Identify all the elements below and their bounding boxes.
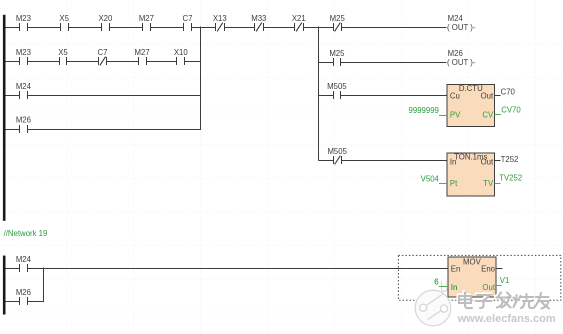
wire <box>27 61 59 62</box>
svg-text:M505: M505 <box>327 82 347 91</box>
contact M23 (NO) <box>16 14 31 31</box>
svg-text:CV70: CV70 <box>501 105 521 114</box>
contact X21 (NC) <box>292 14 306 32</box>
left power rail (top network) <box>3 15 6 221</box>
svg-text:6: 6 <box>434 278 438 287</box>
wire rung3 to node A <box>27 95 201 96</box>
contact M505 (NO) <box>327 82 347 99</box>
contact M23 (NO) <box>16 48 31 65</box>
svg-text:In: In <box>451 283 458 292</box>
wire branch from node B <box>318 62 333 63</box>
contact M26 (NO) <box>16 288 31 305</box>
svg-text:Eno: Eno <box>481 265 496 274</box>
svg-text:M27: M27 <box>135 48 150 57</box>
wire rung1 from rail <box>6 27 20 28</box>
wire rung4 from rail <box>6 129 20 130</box>
wire branch from node B <box>318 95 333 96</box>
wire <box>263 27 295 28</box>
svg-text:V1: V1 <box>500 276 510 285</box>
wire to coil M26 <box>341 62 447 63</box>
svg-text:9999999: 9999999 <box>409 106 439 115</box>
svg-text:X20: X20 <box>98 14 113 23</box>
contact C7 (NC) <box>98 48 108 66</box>
dashed selection rectangle around MOV block <box>398 255 560 300</box>
node C junction vertical wire <box>43 268 44 302</box>
contact X5 (NO) <box>58 48 68 65</box>
wire rung from rail <box>6 268 20 269</box>
wire <box>146 61 177 62</box>
svg-text:PV: PV <box>450 111 461 120</box>
timer block U2 TON.1ms <box>447 153 494 197</box>
wire green Pt stub <box>439 183 447 184</box>
wire to node C <box>27 301 44 302</box>
svg-text:X21: X21 <box>292 14 306 23</box>
contact M27 (NO) <box>139 14 154 31</box>
svg-text:( OUT )-: ( OUT )- <box>447 58 476 67</box>
svg-text:M24: M24 <box>16 82 32 91</box>
contact X13 (NC) <box>213 14 227 32</box>
wire <box>109 27 142 28</box>
contact M27 (NO) <box>135 48 150 65</box>
output coil M24 (OUT) <box>447 14 476 32</box>
svg-text:M26: M26 <box>16 115 31 124</box>
svg-text:M25: M25 <box>329 49 345 58</box>
svg-text:X5: X5 <box>59 14 69 23</box>
svg-text:D.CTU: D.CTU <box>459 84 483 93</box>
svg-text:Pt: Pt <box>450 179 458 188</box>
contact C7 (NO) <box>183 14 193 31</box>
wire rung4 to node A <box>27 129 201 130</box>
svg-text:X10: X10 <box>174 48 189 57</box>
wire to counter U1 Cu input <box>341 95 447 96</box>
svg-text:M25: M25 <box>330 14 346 23</box>
wire <box>68 27 101 28</box>
svg-text:M26: M26 <box>16 288 31 297</box>
contact X20 (NO) <box>98 14 113 31</box>
svg-text://Network 19: //Network 19 <box>4 229 48 238</box>
svg-text:M27: M27 <box>139 14 154 23</box>
wire green PV stub <box>439 115 447 116</box>
wire rung1 through node A <box>192 27 216 28</box>
svg-text:C7: C7 <box>98 48 108 57</box>
svg-text:TV252: TV252 <box>499 174 522 183</box>
svg-text:Out: Out <box>481 92 494 101</box>
wire green In stub (over watermark) <box>439 286 448 287</box>
svg-text:www.elecfans.com: www.elecfans.com <box>457 313 556 325</box>
svg-text:In: In <box>450 157 457 166</box>
svg-text:M23: M23 <box>16 14 31 23</box>
svg-text:Out: Out <box>481 157 494 166</box>
watermark elecfans logo and text <box>415 281 556 326</box>
svg-text:Cu: Cu <box>450 92 460 101</box>
move block U3 MOV <box>448 257 496 297</box>
node A junction vertical wire <box>200 26 201 129</box>
svg-text:M26: M26 <box>448 49 463 58</box>
contact M26 (NO) <box>16 115 31 133</box>
svg-text:T252: T252 <box>501 155 519 164</box>
wire rung2 to node A <box>185 61 201 62</box>
wire rung2 from rail <box>6 61 20 62</box>
svg-text:M24: M24 <box>16 255 32 264</box>
svg-text:MOV: MOV <box>463 258 482 267</box>
svg-text:C7: C7 <box>183 14 193 23</box>
wire U2 Out pin stub <box>494 160 500 161</box>
wire branch from node B <box>318 160 333 161</box>
wire <box>67 61 98 62</box>
node B junction vertical wire <box>318 26 319 160</box>
wire long rung to MOV block En <box>27 268 447 269</box>
wire rung3 from rail <box>6 95 20 96</box>
svg-text:TV: TV <box>483 179 494 188</box>
contact M505 (NC) <box>327 147 347 165</box>
wire green TV stub <box>494 183 500 184</box>
svg-text:CV: CV <box>482 111 494 120</box>
svg-text:V504: V504 <box>421 174 440 183</box>
counter block U1 D.CTU <box>447 84 494 127</box>
wire rung from rail <box>6 301 20 302</box>
svg-text:X5: X5 <box>58 48 68 57</box>
wire green In stub <box>439 286 448 287</box>
contact X5 (NO) <box>59 14 69 31</box>
svg-text:M23: M23 <box>16 48 31 57</box>
contact M33 (NC) <box>251 14 266 32</box>
wire <box>150 27 183 28</box>
svg-text:En: En <box>451 265 461 274</box>
wire U1 Out pin stub <box>494 95 500 96</box>
svg-text:M24: M24 <box>448 14 464 23</box>
wire <box>107 61 138 62</box>
wire green CV stub <box>494 114 501 115</box>
svg-text:M505: M505 <box>327 147 347 156</box>
wire U3 Eno pin stub <box>496 268 502 269</box>
wire <box>224 27 255 28</box>
output coil M26 (OUT) <box>447 49 476 67</box>
contact X10 (NO) <box>174 48 189 65</box>
contact M24 (NO) <box>16 255 32 272</box>
contact M25 (NC) <box>330 14 346 32</box>
wire rung1 through node B <box>303 27 333 28</box>
wire to timer U2 In input <box>342 160 447 161</box>
svg-text:M33: M33 <box>251 14 266 23</box>
wire green Out stub <box>496 285 502 286</box>
wire <box>27 27 60 28</box>
contact M25 (NO) <box>329 49 345 66</box>
svg-text:C70: C70 <box>501 87 516 96</box>
wire to coil M24 <box>342 27 447 28</box>
svg-text:X13: X13 <box>213 14 227 23</box>
contact M24 (NO) <box>16 82 32 99</box>
svg-text:( OUT )-: ( OUT )- <box>447 23 476 32</box>
svg-text:Out: Out <box>482 283 495 292</box>
left power rail (bottom network) <box>3 256 6 315</box>
